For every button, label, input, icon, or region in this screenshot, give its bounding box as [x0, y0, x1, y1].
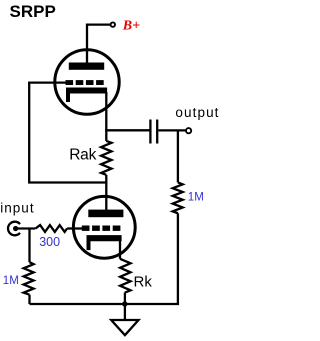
svg-text:B+: B+	[122, 19, 140, 34]
svg-text:SRPP: SRPP	[10, 2, 56, 21]
svg-text:input: input	[0, 200, 34, 215]
svg-text:Rak: Rak	[69, 146, 96, 163]
svg-text:1M: 1M	[3, 275, 19, 287]
svg-text:Rk: Rk	[134, 274, 153, 291]
svg-text:output: output	[175, 105, 219, 120]
svg-text:1M: 1M	[188, 192, 204, 204]
svg-text:300: 300	[39, 235, 60, 249]
